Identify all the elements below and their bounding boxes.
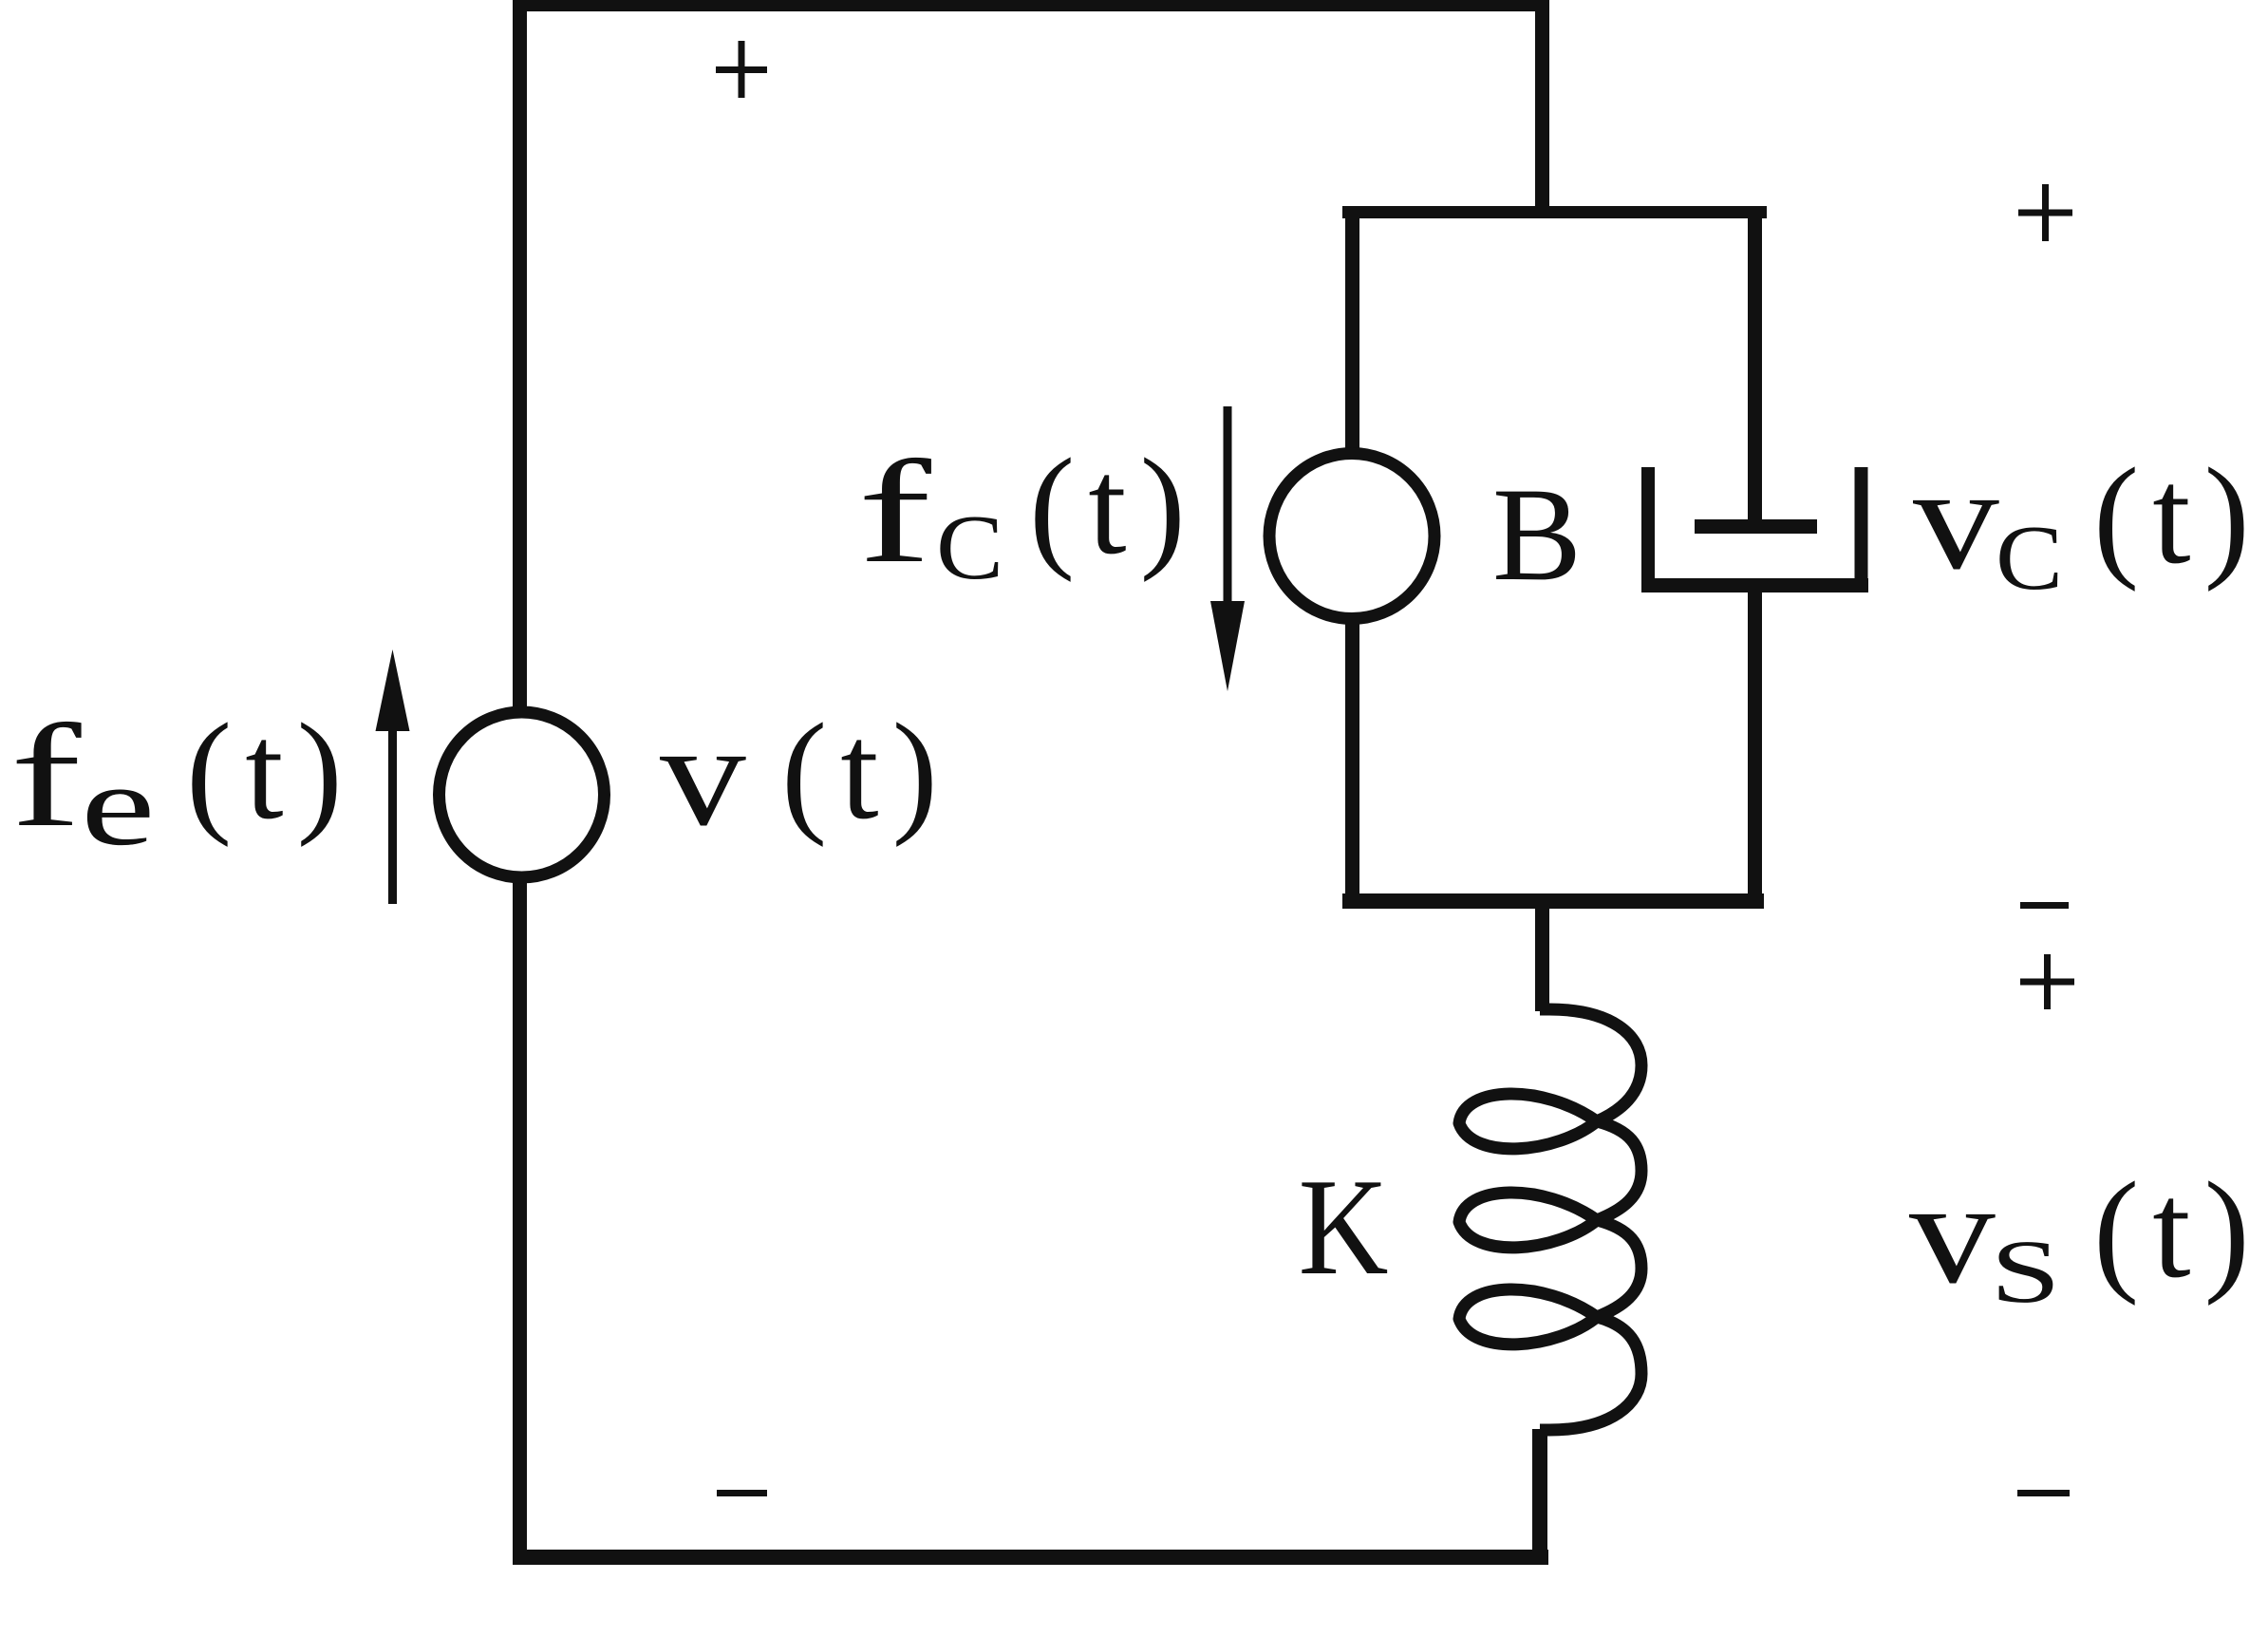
force arrow f_e head bbox=[376, 649, 410, 731]
wire: bottom rail bbox=[513, 1550, 1548, 1565]
svg-text:(t): (t) bbox=[781, 696, 951, 848]
svg-text:(t): (t) bbox=[2093, 1155, 2263, 1307]
node - below v_s bbox=[2017, 1490, 2070, 1496]
wire: left vertical lower segment bbox=[513, 880, 527, 1564]
label v_s(t) bbox=[1909, 1152, 2263, 1321]
wire: parallel box bottom bbox=[1342, 893, 1764, 909]
svg-text:S: S bbox=[1991, 1221, 2061, 1321]
wire: left branch above source B bbox=[1345, 212, 1359, 452]
label f_C(t) bbox=[858, 430, 1199, 599]
node + top (v polarity) bbox=[716, 41, 767, 98]
source v(t) circle bbox=[440, 712, 605, 877]
node - below v_C bbox=[2020, 902, 2069, 909]
wire: parallel box top bbox=[1342, 206, 1767, 218]
wire: right branch from box top to damper piston bbox=[1748, 212, 1762, 528]
node + above v_C bbox=[2018, 184, 2072, 241]
wire: right branch from damper cup to box bottom bbox=[1748, 579, 1762, 900]
label v(t) bbox=[660, 694, 951, 856]
svg-text:B: B bbox=[1492, 461, 1582, 609]
svg-text:f: f bbox=[858, 430, 932, 593]
node + above v_s bbox=[2020, 954, 2074, 1009]
force arrow f_e shaft bbox=[388, 724, 397, 904]
svg-text:(t): (t) bbox=[186, 696, 356, 848]
wire: right feed from top rail to parallel box bbox=[1535, 0, 1549, 216]
wire: spring K to bottom rail bbox=[1532, 1429, 1547, 1564]
svg-text:K: K bbox=[1299, 1151, 1389, 1305]
damper B piston plate bbox=[1695, 519, 1817, 534]
wire: left branch below source B bbox=[1345, 620, 1359, 900]
wire: top rail bbox=[513, 0, 1548, 11]
svg-text:e: e bbox=[81, 742, 156, 870]
source circle of branch B bbox=[1269, 454, 1434, 619]
spring K coil bbox=[1459, 1009, 1641, 1430]
label K (spring value) bbox=[1299, 1151, 1389, 1305]
damper B cup bbox=[1641, 467, 1655, 592]
svg-text:C: C bbox=[936, 497, 1003, 598]
wire: left vertical upper segment bbox=[513, 0, 527, 709]
node - bottom (v polarity) bbox=[717, 1490, 767, 1496]
svg-text:f: f bbox=[10, 694, 83, 857]
svg-text:(t): (t) bbox=[1029, 431, 1199, 583]
svg-text:v: v bbox=[1909, 1152, 1996, 1314]
force arrow f_C shaft bbox=[1224, 406, 1232, 617]
label f_e(t) bbox=[10, 694, 356, 870]
svg-text:v: v bbox=[1913, 438, 1999, 600]
svg-text:C: C bbox=[1996, 507, 2063, 609]
svg-text:(t): (t) bbox=[2093, 441, 2263, 592]
wire: box bottom to spring K bbox=[1535, 893, 1549, 1011]
label v_C(t) bbox=[1913, 438, 2263, 610]
svg-text:v: v bbox=[660, 694, 746, 856]
force arrow f_C head bbox=[1210, 601, 1245, 691]
